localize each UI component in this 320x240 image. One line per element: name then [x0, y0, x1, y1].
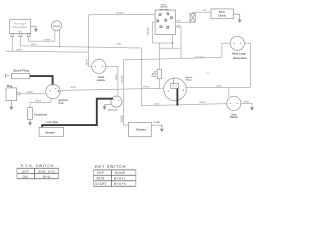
svg-text:B: B: [162, 13, 164, 15]
svg-text:white: white: [243, 100, 250, 104]
svg-text:gray: gray: [154, 101, 160, 105]
svg-text:RUN: RUN: [97, 177, 105, 181]
connector comb: [121, 116, 124, 122]
regulator ground stub: [31, 26, 36, 28]
svg-text:Regulator: Regulator: [13, 25, 28, 29]
wire white lower: [5, 37, 88, 53]
svg-text:B+A: B+A: [43, 175, 51, 179]
svg-text:Spark Plug: Spark Plug: [13, 68, 29, 72]
wire lamp to solenoid: [106, 66, 118, 96]
wire black points-coil: [20, 93, 46, 95]
ignition coil: [46, 84, 60, 98]
wire red main: [123, 57, 221, 60]
svg-text:Switch: Switch: [230, 116, 238, 119]
battery ground wire: [151, 125, 162, 129]
svg-text:red: red: [205, 71, 209, 74]
wire coil to starter: [60, 88, 164, 91]
svg-text:ON: ON: [22, 175, 28, 179]
junction: [159, 88, 160, 89]
wire vertical to head lamps: [89, 15, 92, 67]
svg-text:P.T.O. SWITCH: P.T.O. SWITCH: [21, 163, 54, 168]
wire key bottom: [159, 35, 181, 49]
battery: [129, 122, 152, 136]
svg-text:white: white: [16, 48, 23, 52]
voltage regulator label: [13, 22, 28, 34]
svg-text:orange: orange: [115, 11, 124, 15]
pto switch table: [21, 163, 56, 179]
solenoid cable thick: [42, 99, 113, 128]
starter box: [39, 127, 64, 136]
svg-text:B+E, C+D: B+E, C+D: [38, 170, 55, 174]
solenoid: [111, 96, 122, 107]
svg-text:red: red: [203, 8, 207, 12]
svg-text:red: red: [176, 23, 180, 27]
points ground: [10, 101, 12, 107]
ground: [34, 29, 38, 33]
svg-text:Stator: Stator: [53, 25, 60, 28]
svg-text:B+A+S: B+A+S: [114, 182, 127, 186]
svg-text:black: black: [27, 90, 34, 94]
svg-text:Receptacle: Receptacle: [233, 56, 247, 60]
wire gray starter to right: [186, 87, 250, 96]
svg-text:Lamps: Lamps: [97, 78, 106, 82]
svg-text:+ red cable: + red cable: [45, 121, 58, 124]
head lamp right: [230, 36, 244, 50]
svg-text:gray: gray: [31, 42, 37, 46]
regulator terminal 2: [19, 34, 22, 37]
regulator terminal 3: [27, 34, 30, 37]
svg-text:B+A+L: B+A+L: [114, 177, 126, 181]
svg-text:L: L: [166, 29, 168, 31]
svg-text:white: white: [114, 73, 118, 80]
regulator terminal 1: [11, 34, 14, 37]
seat switch: [227, 96, 241, 110]
stator lead left: [54, 31, 56, 42]
condenser ground: [29, 120, 31, 123]
stator: [52, 21, 62, 31]
wire white seat to ground: [241, 103, 252, 107]
points: [6, 88, 17, 101]
svg-text:white: white: [143, 85, 150, 89]
svg-text:OFF: OFF: [97, 171, 104, 175]
stator lead right: [59, 31, 61, 47]
wire black condenser-coil: [30, 98, 51, 103]
svg-text:Condenser: Condenser: [34, 113, 48, 117]
svg-text:Motor: Motor: [186, 78, 192, 81]
wire red to main: [176, 27, 182, 58]
wire orange feed: [123, 60, 128, 125]
wire lamp right down: [244, 43, 250, 87]
wire white regulator-stator: [29, 37, 55, 42]
key switch table: [95, 164, 127, 186]
head lamps: [92, 59, 106, 73]
svg-text:orange: orange: [146, 27, 150, 36]
svg-text:white: white: [84, 59, 88, 66]
ground: [250, 107, 254, 111]
svg-text:white: white: [70, 85, 77, 89]
svg-text:Clutch: Clutch: [218, 14, 226, 18]
svg-text:white: white: [44, 38, 51, 42]
junction: [88, 46, 89, 47]
svg-text:red wire: red wire: [195, 55, 205, 59]
svg-text:G: G: [163, 27, 165, 29]
ground: [160, 129, 164, 133]
svg-text:Battery: Battery: [136, 128, 146, 132]
starter cable thick: [176, 89, 178, 106]
svg-text:Plug: Plug: [7, 84, 13, 88]
wire orange top: [89, 13, 156, 15]
key switch terminals: [157, 13, 173, 28]
voltage regulator box: [10, 19, 31, 33]
svg-text:OFF: OFF: [22, 170, 29, 174]
svg-text:Fuse: Fuse: [152, 76, 158, 78]
svg-text:Starter: Starter: [45, 130, 56, 134]
svg-text:Solenoid: Solenoid: [108, 110, 118, 112]
clutch ground: [233, 14, 239, 19]
wire red to fuse holder: [176, 21, 193, 23]
svg-text:red: red: [177, 19, 181, 23]
svg-text:Coil: Coil: [59, 101, 64, 105]
svg-text:gray: gray: [116, 42, 122, 46]
wire lamp left: [222, 43, 230, 57]
svg-text:P.T.O.: P.T.O.: [219, 11, 226, 14]
svg-text:START: START: [95, 182, 107, 186]
spark plug wire thick: [30, 76, 53, 85]
ghost label: [205, 71, 209, 74]
svg-text:Head Lamp: Head Lamp: [232, 51, 246, 55]
svg-text:orange: orange: [119, 75, 123, 84]
fuse holder: [190, 14, 195, 23]
wire orange key switch drop: [152, 22, 172, 48]
key switch box: [155, 10, 175, 34]
svg-text:black: black: [199, 100, 206, 104]
wire gray-black lower bus: [142, 48, 227, 106]
wire red fuse to clutch: [193, 12, 211, 13]
svg-text:NONE: NONE: [115, 171, 126, 175]
svg-text:gray: gray: [216, 84, 222, 88]
svg-text:M: M: [170, 18, 172, 20]
junction: [59, 46, 60, 47]
svg-text:+ red: + red: [154, 121, 160, 124]
spark plug: [13, 68, 29, 72]
solenoid ground: [105, 105, 112, 107]
wire gray bus: [20, 37, 141, 49]
fuse: [158, 48, 160, 88]
svg-text:rear view: rear view: [159, 9, 169, 11]
starter generator: [164, 78, 187, 101]
svg-text:KEY SWITCH: KEY SWITCH: [95, 164, 126, 169]
svg-text:black: black: [35, 99, 42, 103]
pto clutch box: [211, 9, 233, 19]
junction: [141, 59, 142, 60]
svg-text:B+: B+: [18, 29, 22, 33]
condenser: [29, 102, 31, 107]
